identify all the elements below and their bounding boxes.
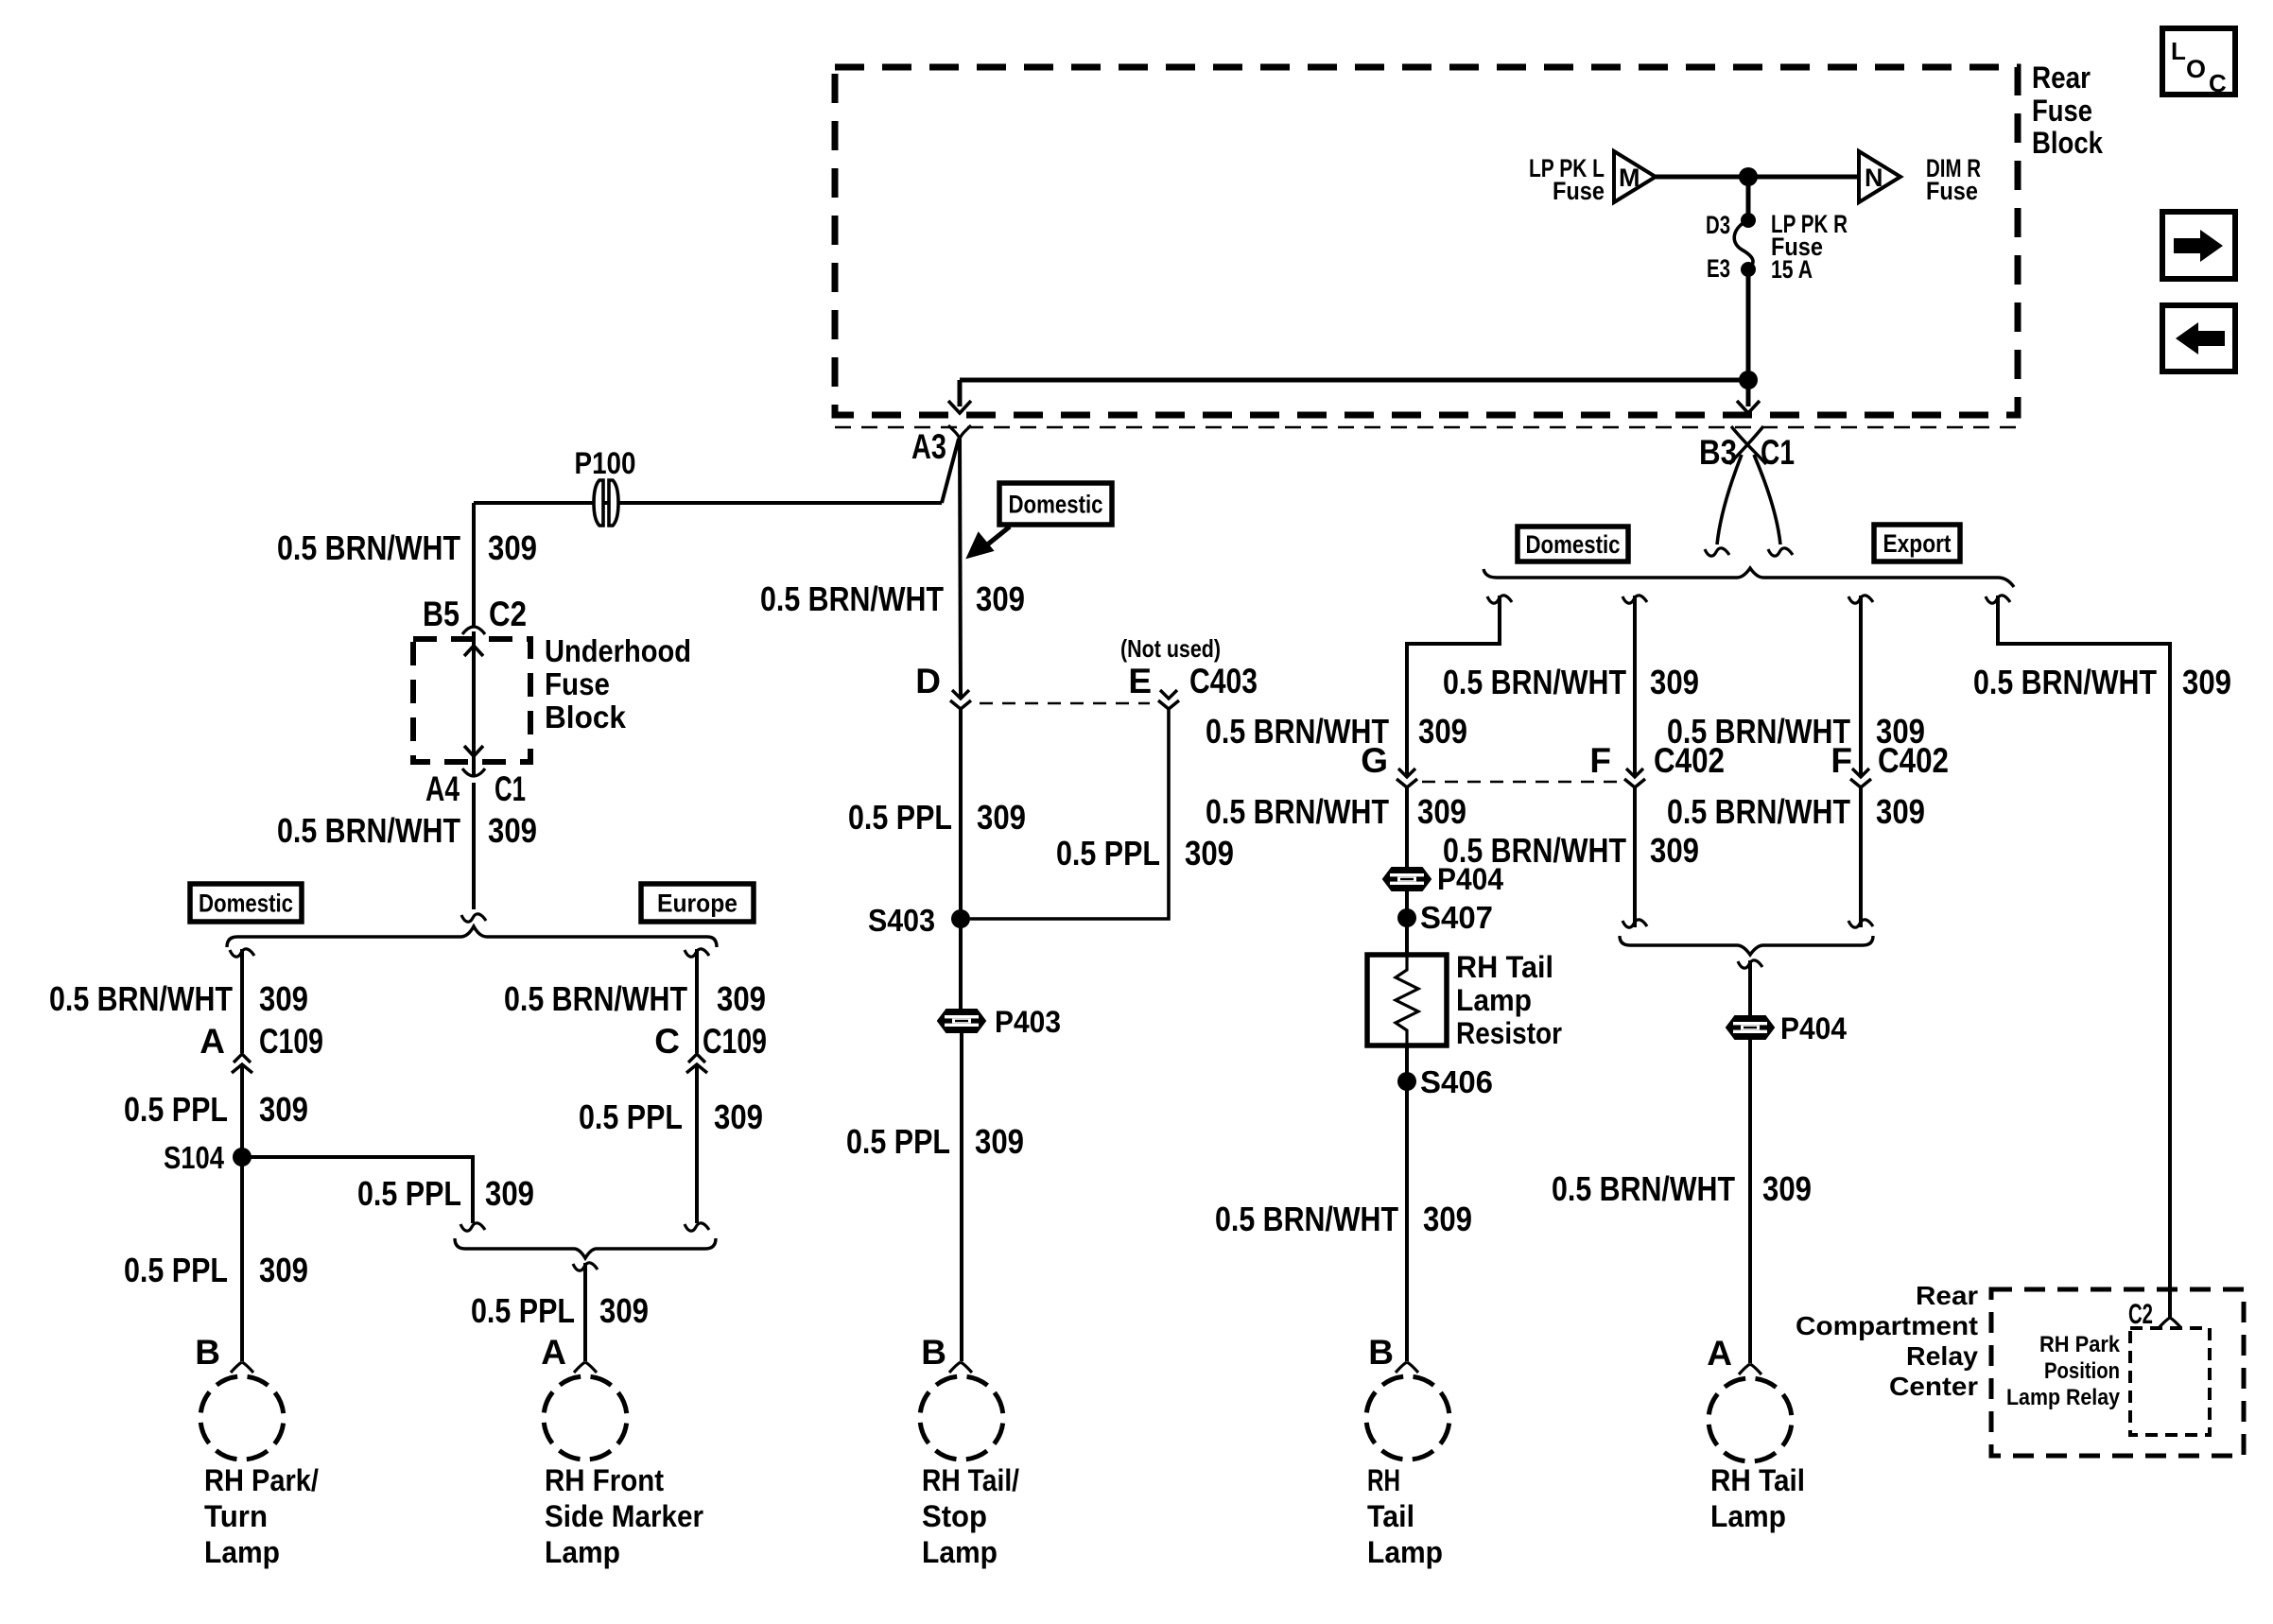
node D3 bbox=[1706, 211, 1756, 239]
svg-text:P404: P404 bbox=[1437, 862, 1503, 896]
svg-text:309: 309 bbox=[976, 579, 1025, 618]
fuse symbol M (LP PK L Fuse) bbox=[1614, 151, 1656, 202]
svg-text:Underhood: Underhood bbox=[545, 633, 691, 668]
lamp RH Tail Lamp (resistor side) bbox=[1366, 1376, 1449, 1460]
svg-text:C: C bbox=[654, 1022, 680, 1061]
connector break C2 relay bbox=[2159, 1318, 2181, 1328]
svg-text:309: 309 bbox=[1418, 712, 1467, 751]
svg-text:P404: P404 bbox=[1780, 1011, 1847, 1045]
dashed link G to F bbox=[1422, 781, 1621, 784]
label Underhood Fuse Block bbox=[545, 633, 691, 734]
svg-text:O: O bbox=[2186, 55, 2206, 83]
svg-text:F: F bbox=[1831, 741, 1852, 780]
label C C109 bbox=[654, 1022, 767, 1061]
label RH Front Side Marker Lamp bbox=[545, 1463, 703, 1569]
node junction at fuse M/N bbox=[1739, 167, 1758, 186]
svg-text:0.5 BRN/WHT: 0.5 BRN/WHT bbox=[760, 579, 944, 618]
underhood fuse block dashed outline bbox=[413, 639, 530, 762]
svg-text:Resistor: Resistor bbox=[1456, 1016, 1562, 1050]
break export feed bbox=[1986, 596, 2010, 603]
svg-text:B3: B3 bbox=[1699, 433, 1737, 472]
wire C1 split right bbox=[1754, 455, 1793, 556]
svg-text:0.5 BRN/WHT: 0.5 BRN/WHT bbox=[504, 979, 687, 1018]
svg-text:C1: C1 bbox=[495, 769, 526, 808]
svg-text:G: G bbox=[1361, 741, 1388, 780]
node E3 bbox=[1707, 254, 1756, 283]
wire E branch bbox=[970, 709, 1169, 919]
wire E3 down to bus bbox=[1746, 269, 1751, 380]
svg-text:C1: C1 bbox=[1761, 433, 1795, 472]
wire to side marker lamp bbox=[583, 1263, 587, 1361]
brace split domestic/europe bbox=[227, 926, 717, 947]
node S403 bbox=[868, 903, 970, 938]
break tail feed 2 bbox=[1622, 596, 1647, 603]
wire europe branch lower bbox=[695, 1064, 699, 1223]
dashed link D to E bbox=[980, 702, 1150, 705]
label DIM R Fuse bbox=[1926, 154, 1981, 205]
label A C109 bbox=[200, 1022, 323, 1061]
svg-text:RH: RH bbox=[1367, 1463, 1400, 1497]
label RH Tail/Stop Lamp bbox=[922, 1463, 1019, 1569]
svg-text:309: 309 bbox=[977, 798, 1026, 837]
svg-text:M: M bbox=[1619, 164, 1640, 192]
svg-text:309: 309 bbox=[488, 811, 537, 850]
resistor RH Tail Lamp Resistor bbox=[1367, 955, 1447, 1045]
label A4 C1 bbox=[425, 769, 526, 808]
relay RH Park Position Lamp Relay dashed outline bbox=[2130, 1328, 2210, 1435]
break at tail/stop lamp bbox=[949, 1362, 972, 1373]
svg-text:0.5 PPL: 0.5 PPL bbox=[1056, 834, 1160, 872]
connector G bbox=[1397, 769, 1417, 787]
label 0.5 BRN/WHT 309 (resistor feed upper) bbox=[1206, 712, 1467, 751]
svg-text:0.5 BRN/WHT: 0.5 BRN/WHT bbox=[49, 979, 233, 1018]
wire P100 corner down to underhood bbox=[472, 503, 476, 626]
svg-text:E3: E3 bbox=[1707, 254, 1730, 283]
svg-text:B: B bbox=[921, 1333, 946, 1372]
wire G to P404 bbox=[1405, 787, 1409, 869]
svg-text:0.5 BRN/WHT: 0.5 BRN/WHT bbox=[1206, 792, 1389, 831]
svg-text:C402: C402 bbox=[1654, 741, 1725, 780]
svg-text:Lamp: Lamp bbox=[1456, 983, 1532, 1017]
label 0.5 BRN/WHT 309 (feed3 upper) bbox=[1667, 712, 1925, 751]
svg-text:309: 309 bbox=[1423, 1200, 1472, 1238]
wire from P100 horizontal bbox=[474, 501, 942, 505]
svg-text:Position: Position bbox=[2044, 1358, 2120, 1384]
wire P404 to S407 bbox=[1405, 890, 1409, 918]
svg-text:A: A bbox=[1707, 1334, 1732, 1373]
svg-text:309: 309 bbox=[488, 528, 537, 567]
svg-text:309: 309 bbox=[485, 1174, 534, 1213]
svg-text:S403: S403 bbox=[868, 903, 935, 938]
svg-text:309: 309 bbox=[1650, 831, 1699, 870]
wire junction to N bbox=[1748, 175, 1859, 180]
label 0.5 PPL 309 (S104 branch) bbox=[357, 1174, 534, 1213]
label 0.5 BRN/WHT 309 (feed2 lower) bbox=[1443, 831, 1699, 870]
connector F feed3 bbox=[1850, 769, 1871, 787]
svg-text:C2: C2 bbox=[2128, 1299, 2153, 1330]
svg-text:0.5 PPL: 0.5 PPL bbox=[848, 798, 952, 837]
wire S406 to tail lamp bbox=[1405, 1081, 1409, 1361]
svg-text:Side Marker: Side Marker bbox=[545, 1499, 703, 1533]
wire europe branch upper bbox=[695, 949, 699, 1053]
label pin A (side marker lamp) bbox=[541, 1333, 566, 1372]
svg-text:Turn: Turn bbox=[204, 1499, 268, 1533]
svg-text:309: 309 bbox=[1185, 834, 1234, 872]
label B5 C2 bbox=[423, 595, 527, 633]
svg-text:309: 309 bbox=[1417, 792, 1466, 831]
wire A3 vertical upper bbox=[960, 437, 961, 699]
wire feed3 lower bbox=[1848, 787, 1873, 927]
wire underhood down to splice brace bbox=[472, 783, 476, 909]
wire M to junction bbox=[1656, 175, 1748, 180]
svg-text:C2: C2 bbox=[489, 595, 527, 633]
svg-text:C109: C109 bbox=[703, 1022, 767, 1061]
wire diagonal into A3 bbox=[942, 439, 959, 503]
label C2 (relay) bbox=[2128, 1299, 2153, 1330]
label A3 bbox=[911, 427, 946, 466]
label 0.5 BRN/WHT 309 (P100 to underhood) bbox=[277, 528, 537, 567]
label RH Tail Lamp Resistor bbox=[1456, 950, 1562, 1050]
LOC legend box bbox=[2162, 28, 2235, 97]
svg-text:Lamp: Lamp bbox=[204, 1535, 280, 1569]
label LP PK R Fuse 15 A bbox=[1771, 210, 1848, 284]
back arrow box bbox=[2162, 305, 2235, 371]
label Export box bbox=[1874, 525, 1960, 561]
label G bbox=[1361, 741, 1388, 780]
label Europe box bbox=[641, 884, 754, 922]
page boundary dashed line bbox=[835, 426, 2018, 428]
node S407 bbox=[1397, 900, 1493, 935]
svg-text:309: 309 bbox=[714, 1097, 763, 1136]
label 0.5 BRN/WHT 309 (feed3 lower) bbox=[1667, 792, 1925, 831]
svg-text:309: 309 bbox=[259, 1090, 308, 1129]
label 0.5 PPL 309 (europe) bbox=[579, 1097, 763, 1136]
svg-text:RH Tail: RH Tail bbox=[1710, 1463, 1805, 1497]
svg-text:0.5 BRN/WHT: 0.5 BRN/WHT bbox=[277, 528, 460, 567]
svg-text:P100: P100 bbox=[575, 446, 636, 480]
svg-text:Domestic: Domestic bbox=[1526, 530, 1621, 559]
svg-text:Tail: Tail bbox=[1367, 1499, 1414, 1533]
break at park/turn lamp bbox=[231, 1362, 253, 1373]
connector break B3/C1 bbox=[1729, 426, 1766, 464]
svg-text:E: E bbox=[1128, 662, 1152, 700]
wire resistor to S406 bbox=[1405, 1044, 1409, 1081]
connector P100 bbox=[575, 446, 636, 526]
connector P404 (tail lamp) bbox=[1726, 1011, 1847, 1045]
svg-text:0.5 BRN/WHT: 0.5 BRN/WHT bbox=[1552, 1169, 1735, 1208]
arrow from Domestic box to wire bbox=[968, 527, 1010, 557]
svg-text:309: 309 bbox=[259, 1251, 308, 1289]
fuse element LP PK R Fuse 15 A bbox=[1734, 220, 1753, 269]
rear compartment relay center dashed outline bbox=[1991, 1289, 2244, 1456]
break below merge brace right bbox=[1738, 960, 1762, 968]
label Rear Compartment Relay Center bbox=[1796, 1281, 1978, 1401]
svg-text:RH Front: RH Front bbox=[545, 1463, 664, 1497]
lamp RH Tail Lamp bbox=[1709, 1378, 1792, 1461]
svg-text:A: A bbox=[541, 1333, 566, 1372]
svg-text:Lamp: Lamp bbox=[922, 1535, 998, 1569]
svg-text:0.5 PPL: 0.5 PPL bbox=[846, 1122, 950, 1161]
wire D to S403 bbox=[959, 709, 963, 1011]
label 0.5 BRN/WHT 309 (export) bbox=[1973, 663, 2231, 701]
svg-text:P403: P403 bbox=[995, 1005, 1061, 1039]
svg-text:15 A: 15 A bbox=[1771, 255, 1813, 284]
svg-text:RH Park/: RH Park/ bbox=[204, 1463, 319, 1497]
svg-text:C402: C402 bbox=[1878, 741, 1949, 780]
svg-text:Block: Block bbox=[545, 700, 627, 734]
svg-text:0.5 BRN/WHT: 0.5 BRN/WHT bbox=[277, 811, 460, 850]
svg-text:L: L bbox=[2171, 37, 2186, 65]
label (Not used) bbox=[1120, 634, 1221, 663]
label 0.5 BRN/WHT 309 (A3 wire) bbox=[760, 579, 1025, 618]
break at side marker lamp bbox=[574, 1362, 597, 1373]
label 0.5 BRN/WHT 309 (resistor feed lower) bbox=[1206, 792, 1466, 831]
svg-text:S406: S406 bbox=[1420, 1064, 1493, 1099]
label 0.5 PPL 309 (E branch) bbox=[1056, 834, 1234, 872]
label RH Park Position Lamp Relay bbox=[2006, 1332, 2121, 1410]
label 0.5 BRN/WHT 309 (feed2 upper) bbox=[1443, 663, 1699, 701]
label 0.5 PPL 309 (side marker) bbox=[471, 1291, 649, 1330]
label Domestic box (tail/stop feed) bbox=[999, 483, 1112, 525]
label 0.5 PPL 309 (tail/stop lower) bbox=[846, 1122, 1024, 1161]
label Rear Fuse Block bbox=[2032, 60, 2103, 160]
wire B3 split left bbox=[1705, 455, 1742, 556]
label RH Tail Lamp bbox=[1710, 1463, 1805, 1533]
svg-text:Domestic: Domestic bbox=[199, 890, 293, 918]
brace merge feeds 2+3 bbox=[1620, 936, 1873, 955]
break tail feed 1 bbox=[1487, 596, 1512, 603]
svg-text:309: 309 bbox=[259, 979, 308, 1018]
svg-text:Center: Center bbox=[1889, 1372, 1978, 1401]
svg-text:Lamp: Lamp bbox=[545, 1535, 620, 1569]
svg-text:Compartment: Compartment bbox=[1796, 1311, 1978, 1340]
wire bus right drop + arrow B3 bbox=[1737, 380, 1760, 413]
connector D bbox=[950, 690, 971, 709]
svg-text:N: N bbox=[1865, 164, 1883, 192]
svg-text:0.5 PPL: 0.5 PPL bbox=[471, 1291, 575, 1330]
brace split four tail feeds bbox=[1484, 568, 2014, 587]
svg-text:Rear: Rear bbox=[1916, 1281, 1978, 1310]
connector C109 pin A bbox=[232, 1054, 252, 1073]
wire bus left drop + arrow A3 bbox=[948, 380, 971, 413]
wire P403 to tail/stop lamp bbox=[960, 1032, 963, 1361]
svg-text:S407: S407 bbox=[1420, 900, 1493, 935]
svg-text:Lamp: Lamp bbox=[1710, 1499, 1786, 1533]
svg-text:F: F bbox=[1589, 741, 1611, 780]
svg-text:Relay: Relay bbox=[1906, 1341, 1978, 1371]
svg-text:(Not used): (Not used) bbox=[1120, 634, 1221, 663]
svg-text:Fuse: Fuse bbox=[545, 666, 610, 701]
label Domestic box (tail feed) bbox=[1518, 527, 1628, 561]
label B3 C1 bbox=[1699, 433, 1795, 472]
svg-text:0.5 BRN/WHT: 0.5 BRN/WHT bbox=[1443, 663, 1626, 701]
label D bbox=[915, 662, 941, 700]
connector E bbox=[1158, 690, 1179, 709]
svg-text:Rear: Rear bbox=[2032, 60, 2091, 95]
svg-text:B5: B5 bbox=[423, 595, 460, 633]
svg-text:0.5 PPL: 0.5 PPL bbox=[357, 1174, 461, 1213]
label Domestic box (park/turn) bbox=[190, 884, 302, 922]
wire europe branch top break bbox=[685, 949, 709, 957]
svg-text:309: 309 bbox=[2182, 663, 2231, 701]
wire merge to P404 bbox=[1748, 960, 1752, 1017]
break above merge brace left bbox=[460, 1223, 485, 1231]
svg-text:Fuse: Fuse bbox=[1553, 177, 1605, 205]
label 0.5 PPL 309 (above S104) bbox=[124, 1090, 308, 1129]
svg-text:A3: A3 bbox=[911, 427, 946, 466]
svg-text:D: D bbox=[915, 662, 941, 700]
label pin B (park/turn lamp) bbox=[195, 1333, 220, 1372]
node bus junction bbox=[1739, 371, 1758, 389]
svg-text:0.5 BRN/WHT: 0.5 BRN/WHT bbox=[1973, 663, 2157, 701]
svg-text:Domestic: Domestic bbox=[1009, 491, 1103, 519]
break at tail lamp A bbox=[1739, 1364, 1761, 1374]
label F C402 (feed2) bbox=[1589, 741, 1725, 780]
svg-text:0.5 PPL: 0.5 PPL bbox=[124, 1090, 228, 1129]
svg-text:C109: C109 bbox=[259, 1022, 323, 1061]
svg-text:Lamp: Lamp bbox=[1367, 1535, 1443, 1569]
break at tail lamp bbox=[1396, 1362, 1418, 1373]
svg-text:D3: D3 bbox=[1706, 211, 1730, 239]
label E C403 bbox=[1128, 662, 1258, 700]
wire bus horizontal bbox=[960, 378, 1748, 383]
label 0.5 BRN/WHT 309 (to tail lamp A) bbox=[1552, 1169, 1812, 1208]
svg-text:A: A bbox=[200, 1022, 225, 1061]
svg-text:Stop: Stop bbox=[922, 1499, 987, 1533]
svg-text:A4: A4 bbox=[425, 769, 460, 808]
lamp RH Park/Turn Lamp bbox=[200, 1376, 284, 1460]
svg-text:0.5 PPL: 0.5 PPL bbox=[579, 1097, 683, 1136]
label pin B (tail/stop lamp) bbox=[921, 1333, 946, 1372]
svg-text:C403: C403 bbox=[1189, 662, 1258, 700]
wire feed2 lower bbox=[1622, 787, 1647, 927]
connector P404 (resistor feed) bbox=[1383, 862, 1503, 896]
svg-text:Export: Export bbox=[1883, 529, 1952, 558]
svg-text:309: 309 bbox=[1876, 792, 1925, 831]
svg-text:0.5 BRN/WHT: 0.5 BRN/WHT bbox=[1667, 792, 1850, 831]
connector break B5/C2 bbox=[462, 627, 485, 634]
label F C402 (feed3) bbox=[1831, 741, 1949, 780]
svg-text:Europe: Europe bbox=[657, 890, 737, 918]
label 0.5 BRN/WHT 309 (to tail lamp B) bbox=[1215, 1200, 1472, 1238]
label RH Tail Lamp (resistor side) bbox=[1367, 1463, 1443, 1569]
svg-text:B: B bbox=[1368, 1333, 1394, 1372]
label LP PK L Fuse bbox=[1529, 154, 1605, 205]
wire tail feed 2 upper bbox=[1633, 596, 1637, 777]
connector F feed2 bbox=[1624, 769, 1645, 787]
svg-text:Lamp Relay: Lamp Relay bbox=[2006, 1385, 2121, 1410]
wire S104 branch right bbox=[242, 1157, 473, 1223]
lamp RH Tail/Stop Lamp bbox=[920, 1376, 1003, 1460]
svg-text:Fuse: Fuse bbox=[2032, 94, 2092, 128]
wire S407 to resistor bbox=[1405, 918, 1409, 957]
wire junction to D3 bbox=[1746, 177, 1751, 220]
wire tail feed 1 jog bbox=[1407, 596, 1500, 777]
wire park/turn branch mid bbox=[240, 1064, 244, 1361]
break tail feed 3 bbox=[1848, 596, 1873, 603]
svg-text:RH Tail/: RH Tail/ bbox=[922, 1463, 1019, 1497]
connector break A4/C1 bbox=[462, 769, 485, 776]
break below merge brace bbox=[573, 1263, 598, 1270]
brace merge to side marker bbox=[455, 1238, 716, 1258]
svg-text:RH Tail: RH Tail bbox=[1456, 950, 1553, 984]
wire park/turn branch upper bbox=[240, 949, 244, 1053]
fuse symbol N (DIM R Fuse) bbox=[1859, 151, 1900, 202]
svg-text:309: 309 bbox=[1650, 663, 1699, 701]
svg-text:309: 309 bbox=[1762, 1169, 1812, 1208]
wire through underhood fuse block bbox=[464, 631, 483, 775]
svg-text:Block: Block bbox=[2032, 126, 2103, 160]
svg-text:Fuse: Fuse bbox=[1926, 177, 1978, 205]
svg-text:0.5 PPL: 0.5 PPL bbox=[124, 1251, 228, 1289]
node S104 bbox=[164, 1140, 252, 1175]
wire P404 to tail lamp A bbox=[1748, 1038, 1752, 1363]
connector P403 bbox=[938, 1005, 1061, 1039]
svg-text:B: B bbox=[195, 1333, 220, 1372]
wire park/turn branch top break bbox=[230, 949, 254, 957]
lamp RH Front Side Marker Lamp bbox=[544, 1376, 627, 1460]
svg-text:C: C bbox=[2209, 69, 2227, 97]
connector C109 pin C bbox=[686, 1054, 707, 1073]
wire tail feed 3 upper bbox=[1859, 596, 1863, 777]
node S406 bbox=[1397, 1064, 1493, 1099]
svg-text:309: 309 bbox=[599, 1291, 649, 1330]
rear fuse block dashed outline bbox=[835, 67, 2018, 415]
label 0.5 PPL 309 (tail/stop upper) bbox=[848, 798, 1026, 837]
svg-text:RH Park: RH Park bbox=[2039, 1332, 2121, 1357]
svg-text:309: 309 bbox=[975, 1122, 1024, 1161]
svg-text:0.5 BRN/WHT: 0.5 BRN/WHT bbox=[1215, 1200, 1398, 1238]
forward arrow box bbox=[2162, 212, 2235, 279]
label pin A (tail lamp) bbox=[1707, 1334, 1732, 1373]
label pin B (tail lamp) bbox=[1368, 1333, 1394, 1372]
wire export feed jog bbox=[1998, 596, 2170, 1318]
label 0.5 PPL 309 (to park/turn lamp) bbox=[124, 1251, 308, 1289]
break before brace bbox=[461, 914, 486, 922]
label 0.5 BRN/WHT 309 (underhood to C109) bbox=[277, 811, 537, 850]
svg-text:S104: S104 bbox=[164, 1140, 225, 1175]
label 0.5 BRN/WHT 309 (park/turn) bbox=[49, 979, 308, 1018]
connector break A3 bbox=[948, 425, 971, 439]
svg-text:309: 309 bbox=[717, 979, 766, 1018]
break above merge brace right bbox=[685, 1223, 709, 1231]
label 0.5 BRN/WHT 309 (europe) bbox=[504, 979, 766, 1018]
label RH Park/Turn Lamp bbox=[204, 1463, 319, 1569]
